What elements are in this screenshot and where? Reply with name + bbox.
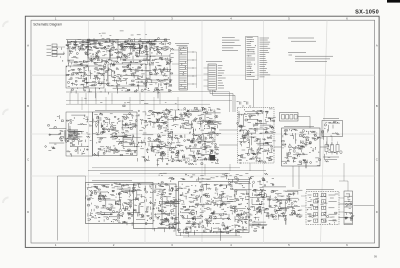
svg-text:A: A — [376, 44, 378, 48]
svg-text:SX-1050: SX-1050 — [355, 10, 379, 16]
svg-text:C: C — [27, 158, 29, 162]
svg-text:C: C — [376, 158, 378, 162]
svg-text:99: 99 — [374, 255, 378, 259]
svg-text:B: B — [376, 104, 378, 108]
svg-text:D: D — [376, 210, 378, 214]
svg-text:Schematic Diagram: Schematic Diagram — [33, 23, 62, 27]
svg-text:D: D — [27, 210, 29, 214]
svg-text:B: B — [27, 104, 29, 108]
svg-text:A: A — [27, 44, 29, 48]
